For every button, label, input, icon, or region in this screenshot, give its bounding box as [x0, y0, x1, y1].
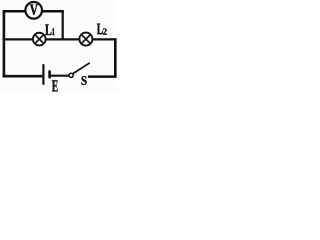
label L2 subscript 2	[103, 29, 107, 35]
label S switch	[82, 76, 87, 85]
lamp L2 cross	[81, 35, 90, 44]
label L1 subscript 1	[52, 28, 54, 35]
voltmeter V circle	[25, 2, 42, 19]
voltmeter V letter	[30, 5, 38, 16]
background	[0, 0, 118, 93]
wire bottom right	[88, 75, 117, 78]
wire top main	[3, 38, 117, 40]
switch S pivot circle	[69, 73, 73, 77]
wire battery to switch	[51, 75, 69, 77]
wire right vertical	[114, 38, 117, 77]
label E battery	[52, 80, 58, 91]
battery E long plate	[42, 64, 44, 85]
wire bottom left	[3, 75, 43, 78]
lamp L1 cross	[35, 35, 44, 44]
wire voltmeter branch vertical	[62, 10, 64, 40]
battery E short plate	[48, 70, 51, 78]
lamp L1 circle	[33, 33, 46, 46]
label L1 letter L	[45, 25, 51, 36]
label L2 letter L	[97, 24, 103, 34]
switch S blade	[73, 63, 90, 74]
wire left vertical	[3, 10, 6, 77]
lamp L2 circle	[79, 33, 92, 46]
wire voltmeter branch horizontal	[3, 10, 64, 13]
